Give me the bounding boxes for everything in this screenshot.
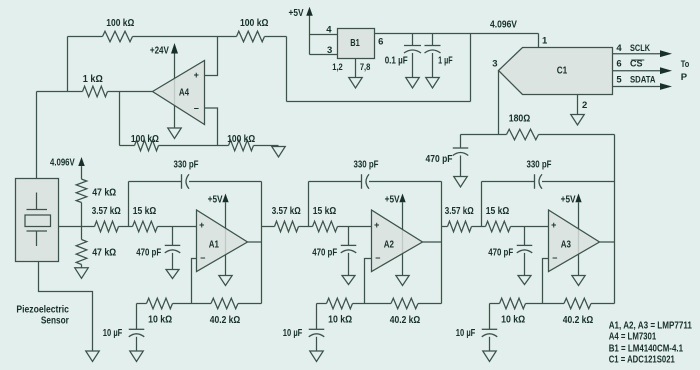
svg-text:A2: A2 — [384, 240, 394, 251]
svg-text:4: 4 — [326, 24, 332, 35]
svg-text:330 pF: 330 pF — [354, 159, 379, 170]
svg-text:A3: A3 — [561, 240, 572, 251]
svg-text:470 pF: 470 pF — [312, 247, 337, 258]
svg-text:6: 6 — [378, 37, 383, 48]
svg-text:0.1 µF: 0.1 µF — [385, 56, 408, 67]
svg-text:+5V: +5V — [289, 8, 304, 19]
svg-text:A1, A2, A3 = LMP7711: A1, A2, A3 = LMP7711 — [609, 320, 693, 331]
svg-text:4.096V: 4.096V — [490, 20, 517, 31]
svg-text:+24V: +24V — [150, 45, 169, 56]
svg-text:15 kΩ: 15 kΩ — [486, 206, 510, 217]
svg-text:10 kΩ: 10 kΩ — [148, 315, 172, 326]
svg-text:40.2 kΩ: 40.2 kΩ — [390, 315, 421, 326]
svg-text:7,8: 7,8 — [360, 62, 371, 72]
svg-text:470 pF: 470 pF — [426, 154, 453, 165]
svg-text:Piezoelectric: Piezoelectric — [16, 305, 69, 316]
svg-text:+5V: +5V — [561, 194, 576, 205]
svg-text:100 kΩ: 100 kΩ — [227, 134, 255, 145]
svg-text:−: − — [552, 253, 557, 263]
svg-text:3: 3 — [327, 45, 332, 56]
svg-text:10 kΩ: 10 kΩ — [328, 315, 352, 326]
svg-text:+: + — [199, 220, 204, 230]
svg-text:−: − — [375, 253, 380, 263]
svg-text:B1: B1 — [350, 38, 360, 49]
svg-text:5: 5 — [616, 74, 622, 85]
svg-text:3: 3 — [492, 59, 497, 70]
svg-text:330 pF: 330 pF — [174, 159, 199, 170]
svg-text:C1 = ADC121S021: C1 = ADC121S021 — [609, 355, 676, 366]
svg-text:47 kΩ: 47 kΩ — [92, 187, 116, 198]
svg-text:180Ω: 180Ω — [509, 113, 531, 124]
svg-text:P: P — [681, 72, 688, 83]
svg-text:A4 = LM7301: A4 = LM7301 — [609, 332, 657, 343]
svg-text:+5V: +5V — [208, 194, 223, 205]
svg-text:To: To — [681, 59, 690, 70]
svg-text:A4: A4 — [179, 87, 190, 98]
svg-text:1,2: 1,2 — [332, 62, 343, 72]
svg-text:40.2 kΩ: 40.2 kΩ — [210, 315, 241, 326]
svg-text:10 kΩ: 10 kΩ — [501, 315, 525, 326]
svg-text:1 kΩ: 1 kΩ — [83, 74, 103, 85]
svg-text:15 kΩ: 15 kΩ — [133, 206, 157, 217]
svg-text:47 kΩ: 47 kΩ — [92, 247, 116, 258]
svg-text:10 µF: 10 µF — [283, 328, 303, 339]
svg-text:2: 2 — [582, 100, 587, 111]
svg-text:B1 = LM4140CM-4.1: B1 = LM4140CM-4.1 — [609, 343, 684, 354]
svg-text:SCLK: SCLK — [630, 43, 651, 53]
svg-text:100 kΩ: 100 kΩ — [240, 18, 269, 29]
svg-text:470 pF: 470 pF — [488, 247, 513, 258]
svg-text:10 µF: 10 µF — [103, 328, 123, 339]
svg-text:SDATA: SDATA — [630, 74, 656, 84]
svg-text:1 µF: 1 µF — [438, 56, 453, 67]
svg-text:Sensor: Sensor — [41, 315, 69, 326]
svg-text:−: − — [200, 253, 205, 263]
svg-text:A1: A1 — [209, 240, 220, 251]
svg-text:15 kΩ: 15 kΩ — [313, 206, 337, 217]
svg-text:3.57 kΩ: 3.57 kΩ — [272, 206, 301, 217]
svg-text:+5V: +5V — [385, 194, 400, 205]
svg-text:C1: C1 — [557, 66, 568, 77]
svg-text:6: 6 — [616, 59, 621, 70]
svg-text:+: + — [551, 220, 556, 230]
svg-text:40.2 kΩ: 40.2 kΩ — [563, 315, 594, 326]
svg-text:3.57 kΩ: 3.57 kΩ — [92, 206, 121, 217]
svg-text:100 kΩ: 100 kΩ — [131, 134, 159, 145]
svg-text:4: 4 — [616, 43, 622, 54]
svg-text:3.57 kΩ: 3.57 kΩ — [445, 206, 474, 217]
svg-text:4.096V: 4.096V — [50, 158, 75, 169]
svg-text:10 µF: 10 µF — [456, 328, 476, 339]
svg-text:100 kΩ: 100 kΩ — [106, 18, 134, 29]
svg-text:1: 1 — [542, 36, 548, 47]
svg-text:470 pF: 470 pF — [136, 247, 161, 258]
svg-text:330 pF: 330 pF — [527, 159, 552, 170]
svg-text:+: + — [194, 70, 199, 80]
svg-text:−: − — [194, 104, 199, 114]
svg-text:+: + — [374, 220, 379, 230]
